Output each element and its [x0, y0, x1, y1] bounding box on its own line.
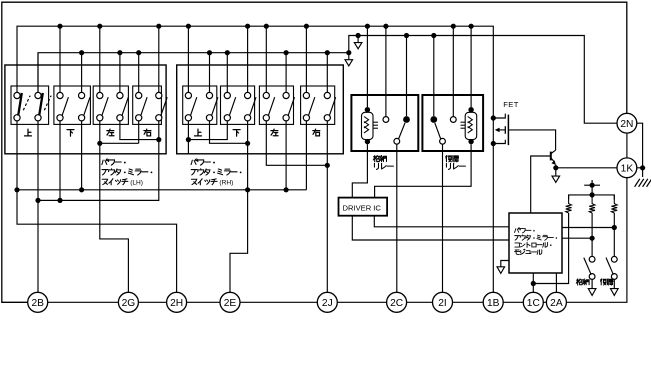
svg-text:(RH): (RH) [219, 180, 233, 187]
wire Q2 base to module [531, 156, 551, 213]
wire module right upper [562, 227, 614, 229]
RH switch pole 3 contacts [224, 92, 230, 98]
node arrow A2 [348, 53, 350, 60]
wire RH pole3 top [226, 53, 228, 93]
wire LH pole3 top [59, 26, 61, 92]
FET Q1 gate arrow [499, 129, 506, 131]
wire LH cross 5-7 [100, 142, 139, 144]
svg-text:1C: 1C [527, 298, 540, 309]
wire R2 to retract switch [591, 213, 593, 256]
ground G1 [635, 179, 640, 187]
wire bus2 (lower feed) [38, 53, 349, 93]
RH sub-switch box migi [301, 86, 335, 124]
wire RH pole2 bottom to pole4 [210, 121, 248, 143]
power outer mirror control module box [509, 213, 562, 273]
relay K2 coil [468, 107, 473, 112]
relay K1 NC contact [383, 117, 389, 123]
RH switch pole 8 contacts [324, 92, 330, 98]
wire RH pole1 top [187, 26, 189, 92]
svg-text:2N: 2N [620, 119, 633, 130]
LH switch pole 7 contacts [136, 92, 142, 98]
wire K2 NC top [452, 26, 454, 116]
wire RH pole6 bottom to busA [285, 121, 287, 190]
wire module to 1C [532, 273, 534, 292]
wire LH pole3 bottom to busB [59, 121, 61, 200]
svg-text:1K: 1K [621, 163, 634, 174]
terminal 1C [523, 292, 543, 312]
wire LH pole7 bottom [138, 121, 140, 143]
label retract switch [576, 279, 589, 285]
wire K1 NO top [406, 36, 408, 117]
label return relay [446, 155, 459, 161]
RH sub-switch box shita [221, 86, 255, 124]
wire FET column to 1B [492, 118, 494, 292]
wire RH pole1 bottom [187, 121, 189, 154]
svg-text:2I: 2I [438, 298, 447, 309]
terminal 1B [483, 292, 503, 312]
terminal 2A [546, 292, 566, 312]
wire RH pole8 bottom to 2J [326, 121, 328, 292]
wire R3 to return switch [613, 213, 615, 256]
node arrow A4 [555, 168, 557, 176]
LH sub-switch box migi [133, 86, 162, 124]
wire emitter to 1K [556, 167, 617, 169]
RH label ue [195, 129, 202, 136]
return manual switch [611, 256, 617, 262]
wire K1 coil top [366, 26, 368, 107]
wire RH cross 1-3 [188, 121, 227, 140]
terminal 2I [433, 292, 453, 312]
svg-text:2G: 2G [122, 298, 136, 309]
terminal 2J [317, 292, 337, 312]
node Q2 emitter junction [553, 165, 558, 170]
power outer mirror switch RH box [177, 65, 344, 154]
LH label migi [144, 129, 151, 136]
wire LH pole6 top [119, 53, 121, 93]
wire RH pole5 bottom to 2J line [266, 121, 327, 165]
LH label hidari [107, 129, 114, 136]
node arrow A1 [357, 36, 359, 43]
wire 1C junction to left resistor [533, 213, 568, 284]
svg-text:2B: 2B [31, 298, 44, 309]
wire K1 common to 2C [396, 144, 398, 292]
wire RH pole6 top [285, 53, 287, 93]
FET Q1 drain lead [493, 114, 505, 118]
label return switch [601, 279, 614, 285]
terminal 2C [387, 292, 407, 312]
svg-text:2H: 2H [170, 298, 183, 309]
LH switch pole 8 contacts [156, 92, 162, 98]
wire LH pole1 bottom to busA/2H [17, 121, 177, 292]
RH switch pole 4 contacts [245, 92, 251, 98]
FET Q1 gate bar [504, 126, 506, 134]
wire LH pole4 bottom to busA [81, 121, 83, 190]
wire LH pole6 bottom to pole8 [120, 121, 159, 140]
LH label ue [25, 129, 32, 136]
label retract relay [373, 155, 386, 161]
node arrow A6 [613, 279, 615, 288]
wire K2 NO top [433, 36, 435, 117]
svg-text:DRIVER IC: DRIVER IC [343, 203, 382, 212]
RH sub-switch box ue [183, 86, 217, 124]
wire LH pole5 top [99, 26, 101, 92]
LH sub-switch box ue [11, 86, 49, 124]
wire power loop 2B to 2N [2, 2, 627, 302]
resistor R1 [566, 195, 572, 213]
RH label hidari [271, 129, 278, 136]
RH switch pole 2 contacts [206, 92, 212, 98]
RH sub-switch box hidari [259, 86, 293, 124]
wire module right lower [562, 237, 592, 239]
wire K2 common to 2I [442, 144, 444, 292]
resistor R3 [611, 195, 617, 213]
RH switch pole 5 contacts [263, 92, 269, 98]
RH label migi [313, 129, 320, 136]
relay K2 common contact [440, 138, 446, 144]
node arrow A3 [497, 267, 505, 274]
wire LH pole7 top [138, 53, 140, 93]
RH switch pole 6 contacts [283, 92, 289, 98]
wire driver to module upper [374, 216, 509, 227]
node module 1C junction [531, 281, 536, 286]
wire bottom terminal bus [27, 301, 29, 303]
label control module [515, 228, 535, 233]
terminal 2G [118, 292, 138, 312]
terminal 2N [617, 113, 637, 133]
LH sub-switch box shita [54, 86, 91, 124]
wire RH pole7 top [305, 26, 307, 92]
svg-text:2E: 2E [224, 298, 237, 309]
wire 1K to bottom bus [566, 178, 627, 303]
terminal 2B [28, 292, 48, 312]
wire module to 2A [555, 273, 557, 292]
svg-text:2A: 2A [550, 298, 563, 309]
relay K2 NC contact [450, 117, 456, 123]
relay K1 coil [365, 107, 370, 112]
wire 2N to 1K [626, 133, 628, 158]
power outer mirror switch LH box [5, 65, 166, 154]
FET Q1 channel bar [507, 115, 509, 146]
LH label shita [67, 130, 74, 136]
wire resistor bus [569, 195, 615, 200]
LH switch pole 4 contacts [79, 92, 85, 98]
wire bus35 to 2N [349, 36, 617, 124]
wire LH pole4 top [81, 53, 83, 93]
svg-text:1B: 1B [487, 298, 500, 309]
driver IC box U1 [339, 198, 388, 216]
terminal 2H [167, 292, 187, 312]
wire K2 coil top [470, 26, 472, 107]
retract relay box [351, 95, 418, 151]
wire RH pole7 bottom to busA [305, 121, 307, 190]
wire LH pole5 bottom to 2G [100, 121, 129, 292]
node arrow A5 [591, 279, 593, 288]
label power outer mirror switch RH [191, 159, 215, 165]
wire K2 coil to driver [375, 144, 472, 197]
LH switch pole 3 contacts [57, 92, 63, 98]
transistor Q2 collector [551, 150, 555, 153]
wire busA [17, 189, 306, 191]
wire RH pole5 top [265, 26, 267, 92]
wire LH pole8 top [158, 26, 160, 92]
label power outer mirror switch LH [102, 159, 126, 165]
terminal 1K [617, 158, 637, 178]
wire RH pole2 top [209, 53, 211, 93]
RH label shita [233, 130, 240, 136]
wire FET to transistor [508, 130, 555, 150]
retract manual switch [589, 256, 595, 262]
svg-text:2C: 2C [390, 298, 403, 309]
transistor Q2 emitter [551, 158, 554, 162]
wire RH pole8 top [326, 53, 328, 93]
wire LH pole8 bottom to busB [38, 121, 159, 200]
wire RH pole4 bottom to 2E [230, 121, 248, 292]
resistor R2 [589, 195, 595, 213]
wire LH pole2 bottom to 2B [37, 121, 39, 292]
relay K1 common contact [394, 138, 400, 144]
wire K1 NC top [385, 26, 387, 116]
LH switch pole 6 contacts [117, 92, 123, 98]
return relay box [422, 95, 483, 151]
LH switch pole 5 contacts [97, 92, 103, 98]
svg-text:(LH): (LH) [130, 180, 143, 187]
FET Q1 source lead [493, 140, 505, 144]
wire 1K to ground leg [637, 167, 643, 169]
RH switch pole 7 contacts [303, 92, 309, 98]
LH switch pole 2 contacts [35, 92, 41, 98]
svg-text:2J: 2J [322, 298, 333, 309]
wire 2N to ground leg [637, 123, 643, 168]
LH switch pole 1 contacts [14, 92, 20, 98]
relay K2 NO contact [430, 116, 437, 123]
wire busB [38, 199, 159, 201]
wire LH pole2 top [37, 53, 39, 93]
node mid resistor junction bar [591, 180, 593, 195]
svg-text:FET: FET [503, 100, 519, 109]
wire K1 coil to driver [352, 144, 367, 197]
LH sub-switch box hidari [93, 86, 128, 124]
wire RH pole4 top [247, 26, 249, 92]
transistor Q2 base bar [550, 152, 552, 161]
wire driver to module lower [352, 216, 509, 240]
wire module left arrow stub [501, 261, 509, 267]
relay K1 NO contact [403, 116, 410, 123]
RH switch pole 1 contacts [185, 92, 191, 98]
terminal 2E [220, 292, 240, 312]
wire bus1 (upper feed) [17, 26, 493, 118]
